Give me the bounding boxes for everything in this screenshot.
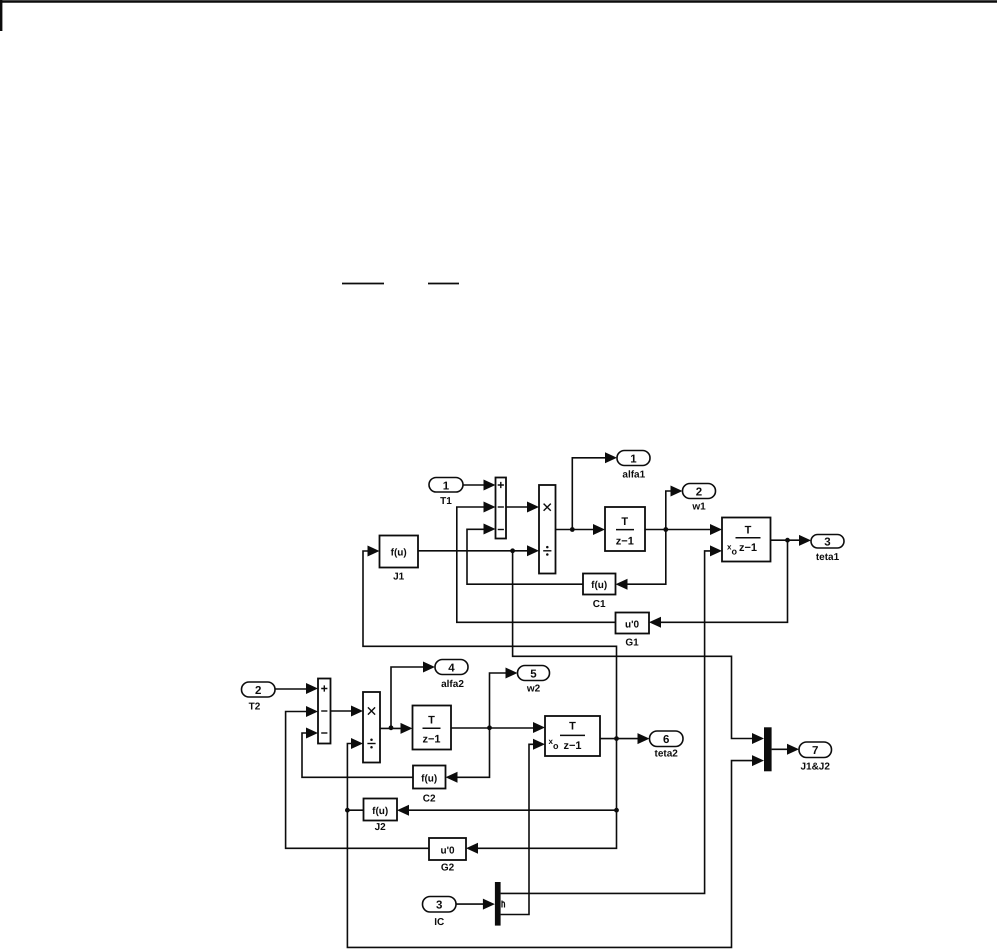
svg-text:2: 2 [696, 486, 702, 498]
integrator block Integrator2 teta2 [545, 716, 600, 756]
arrow into w1 [671, 486, 683, 497]
junction alfa2 branch [389, 725, 394, 730]
svg-text:J1&J2: J1&J2 [800, 762, 830, 773]
svg-text:f(u): f(u) [421, 773, 437, 784]
function block J2 f(u) [364, 799, 398, 821]
svg-text:T1: T1 [440, 496, 452, 507]
arrow into DTF1 [593, 524, 605, 535]
svg-text:z−1: z−1 [563, 740, 581, 752]
svg-text:C2: C2 [423, 794, 436, 805]
page top rule [0, 0, 997, 31]
wire T2 to Sum2 [275, 688, 309, 690]
wire DTF1 to Integrator1 [645, 529, 713, 531]
wire branch to C2 input [455, 728, 490, 778]
svg-text:T: T [621, 516, 628, 528]
arrow into Integrator2 xo [533, 739, 545, 750]
arrow into G1 [649, 617, 661, 628]
junction w2 / C2 branch [487, 725, 492, 730]
junction J2 output [345, 808, 350, 813]
wire G1 output to Sum1 [457, 507, 616, 622]
wire Integrator2 to teta2 [600, 738, 641, 740]
function block C2 f(u) [413, 766, 446, 789]
wire C2 output to Sum2 [302, 733, 413, 777]
function block J1 f(u) [380, 536, 419, 568]
arrow into C2 [446, 772, 458, 783]
arrow into Product2 divide [351, 738, 363, 749]
svg-text:teta2: teta2 [655, 749, 679, 760]
sum block Sum2 [318, 679, 331, 744]
arrow into teta2 [638, 733, 650, 744]
svg-text:2: 2 [255, 685, 261, 697]
svg-text:f(u): f(u) [591, 580, 607, 591]
svg-text:f(u): f(u) [391, 548, 407, 559]
arrow into Product1 x [527, 502, 539, 513]
svg-text:5: 5 [530, 668, 537, 680]
junction teta1 feedback [785, 538, 790, 543]
sum block Sum1 [496, 478, 507, 539]
svg-text:T: T [428, 714, 435, 726]
input port 3 IC [423, 897, 457, 913]
arrow into Mux port1 [752, 733, 764, 744]
discrete transfer block DTF2 T/(z-1) [413, 706, 452, 750]
product block Product2 [363, 692, 380, 763]
wire Sum1 to Product1 [506, 506, 530, 508]
wire J1 to Product1 divide [418, 550, 530, 552]
wire branch to C1 input [626, 530, 666, 585]
wire Demux out2 to Integrator2 xo [501, 744, 536, 914]
junction J2 input tap [614, 808, 619, 813]
function block C1 f(u) [583, 574, 616, 595]
discrete transfer block DTF1 T/(z-1) [605, 507, 645, 551]
integrator block Integrator1 teta1 [722, 518, 771, 562]
wire teta1 to G1 input [659, 540, 788, 622]
svg-text:T: T [745, 525, 752, 537]
junction w1 / C1 branch [663, 527, 668, 532]
svg-text:z−1: z−1 [739, 542, 757, 554]
output port 3 teta1 [811, 535, 844, 549]
wire J2 junction up to Product2 divide [347, 744, 353, 811]
wire Mux to output7 [772, 748, 790, 750]
svg-text:IC: IC [434, 917, 444, 928]
svg-text:T: T [569, 721, 576, 733]
wire branch to w2 [490, 673, 509, 728]
arrow into teta1 [799, 535, 811, 546]
arrow into C1 [616, 579, 628, 590]
wire IC to Demux [456, 903, 486, 905]
demux glyph [502, 901, 505, 908]
wire Demux out1 to Integrator1 xo [501, 551, 713, 894]
demux block Demux [495, 882, 501, 926]
output port 4 alfa2 [435, 660, 468, 675]
wire branch to w1 [666, 491, 674, 530]
svg-text:G2: G2 [441, 863, 455, 874]
arrow into Sum1 port1 [484, 480, 496, 491]
wire DTF2 to Integrator2 [451, 727, 536, 729]
wire Product2 to DTF2 [380, 727, 404, 729]
wire G2 output to Sum2 [286, 712, 429, 849]
arrow into alfa2 [423, 662, 435, 673]
input port 1 T1 [429, 478, 463, 493]
fraction bar 2 [428, 283, 459, 285]
svg-text:1: 1 [443, 480, 450, 492]
wire J2 junction to Mux input2 via bottom [347, 761, 754, 948]
svg-text:w2: w2 [526, 684, 541, 695]
arrow into J2 [397, 805, 409, 816]
svg-text:o: o [732, 547, 738, 557]
arrow into Sum1 port3 [484, 524, 496, 535]
arrow into Sum2 port3 [306, 728, 318, 739]
svg-text:teta1: teta1 [816, 552, 840, 563]
arrow into Sum2 port2 [306, 706, 318, 717]
junction on J1 output [510, 548, 515, 553]
wire branch to alfa2 [391, 667, 426, 728]
svg-text:alfa1: alfa1 [622, 469, 645, 480]
svg-text:T2: T2 [249, 702, 261, 713]
arrow into Demux [483, 899, 495, 910]
output port 7 J1&J2 [799, 742, 832, 758]
output port 5 w2 [518, 666, 550, 681]
svg-text:o: o [553, 741, 559, 751]
junction teta2 feedback [614, 736, 619, 741]
wire C1 output to Sum1 [467, 529, 583, 584]
wire branch to alfa1 [572, 458, 608, 530]
arrow into alfa1 [605, 452, 617, 463]
svg-text:z−1: z−1 [422, 734, 440, 746]
arrow into Integrator2 [533, 722, 545, 733]
wire tap to J2 input [407, 809, 617, 811]
gravity block G2 u'0 [429, 838, 466, 860]
wire J2 output to junction [347, 809, 363, 811]
svg-text:3: 3 [436, 900, 442, 912]
wire Product1 to DTF1 [556, 529, 597, 531]
svg-text:7: 7 [812, 745, 818, 757]
wire Sum2 to Product2 [331, 710, 354, 712]
wire J1 output to Mux input1 [513, 551, 755, 739]
arrow into Integrator1 xo [710, 545, 722, 556]
arrow into Product2 x [351, 706, 363, 717]
svg-text:alfa2: alfa2 [441, 679, 464, 690]
output port 6 teta2 [650, 731, 684, 747]
wire Integrator1 to teta1 [771, 539, 803, 541]
svg-text:u'0: u'0 [625, 619, 639, 630]
svg-text:f(u): f(u) [372, 806, 388, 817]
wire T1 to Sum1 [463, 484, 486, 486]
output port 2 w1 [683, 484, 716, 499]
arrow into w2 [506, 668, 518, 679]
wire teta2 down to G2 [476, 739, 617, 849]
arrow into J1 [368, 546, 380, 557]
arrow into output7 [787, 744, 799, 755]
svg-text:J1: J1 [393, 572, 405, 583]
fraction bar 1 [342, 283, 384, 285]
svg-text:u'0: u'0 [440, 845, 454, 856]
wire teta2 to J1 input [363, 551, 617, 739]
arrow into Integrator1 [710, 524, 722, 535]
arrow into Mux port2 [752, 755, 764, 766]
input port 2 T2 [242, 682, 276, 697]
arrow into DTF2 [401, 723, 413, 734]
svg-text:4: 4 [448, 662, 455, 674]
svg-text:z−1: z−1 [616, 535, 634, 547]
gravity block G1 u'0 [616, 613, 650, 634]
svg-text:6: 6 [663, 734, 669, 746]
arrow into Product1 divide [527, 545, 539, 556]
arrow into Sum2 port1 [306, 683, 318, 694]
svg-text:3: 3 [824, 537, 830, 549]
arrow into Sum1 port2 [484, 502, 496, 513]
junction alfa1 branch [570, 527, 575, 532]
svg-text:G1: G1 [625, 638, 639, 649]
svg-text:w1: w1 [691, 502, 706, 513]
svg-text:C1: C1 [593, 599, 606, 610]
svg-text:J2: J2 [375, 822, 387, 833]
mux block Mux [764, 727, 772, 771]
output port 1 alfa1 [617, 451, 650, 466]
svg-text:1: 1 [630, 453, 637, 465]
product block Product1 [539, 485, 556, 574]
arrow into G2 [466, 843, 478, 854]
